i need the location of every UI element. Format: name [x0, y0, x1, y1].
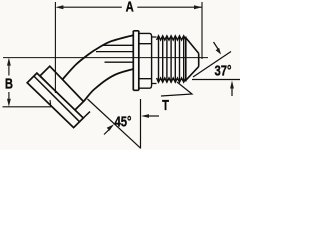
svg-text:B: B — [5, 75, 13, 92]
svg-text:T: T — [162, 97, 169, 114]
svg-text:45°: 45° — [114, 113, 131, 130]
svg-text:A: A — [126, 0, 134, 15]
svg-text:37°: 37° — [214, 62, 231, 79]
